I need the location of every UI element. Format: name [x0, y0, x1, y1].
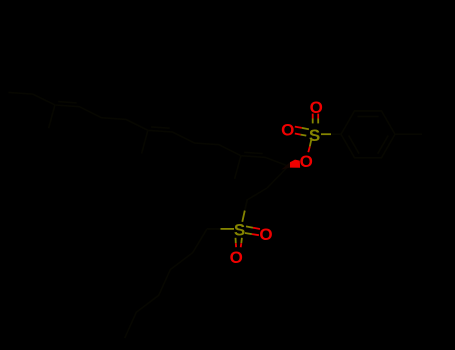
S1 to tosyl ring bond (olive half then dark half)	[321, 133, 331, 135]
wire lower chain descending from sulfone CH2	[125, 229, 207, 338]
tosyl benzene ring	[341, 111, 395, 158]
svg-text:O: O	[230, 248, 243, 267]
svg-text:O: O	[281, 121, 294, 140]
S2=O bottom double bond right line (olive half, red half)	[240, 238, 243, 243]
S2 to chain carbon bond (olive half then dark half)	[242, 211, 245, 222]
wire double bond parallel line Ca=Cb	[244, 152, 263, 153]
S2=O bottom double bond left line (olive half, red half)	[235, 238, 237, 243]
S2 to lower chain CH2 bond (olive half then dark half)	[221, 228, 235, 230]
svg-text:O: O	[300, 152, 313, 171]
S1=O left double bond lower line (red half, olive half)	[295, 134, 301, 135]
wire chain C2-C3	[247, 188, 267, 200]
tosyl ring inner double bond left-bottom	[349, 136, 360, 154]
wedge bond C1 to O (red half near oxygen)	[290, 160, 300, 168]
wire chain C1-C2	[267, 167, 288, 189]
svg-text:O: O	[310, 98, 323, 117]
wire methyl stub on Cb	[235, 156, 241, 179]
wire methyl stub on Cj	[49, 105, 55, 128]
S2=O right double bond upper line (olive half, red half)	[246, 226, 253, 227]
S2=O right double bond lower line (olive half, red half)	[245, 233, 252, 234]
svg-text:S: S	[234, 221, 245, 240]
wire double bond parallel line Ce=Cf	[151, 127, 170, 128]
svg-text:S: S	[309, 126, 320, 145]
S1=O left double bond upper line (red half, olive half)	[295, 127, 302, 128]
S1=O top double bond line 2 (red upper, olive lower)	[317, 114, 319, 119]
svg-text:O: O	[259, 225, 272, 244]
sulfonate S1-O ester bond (olive half)	[310, 139, 312, 146]
wire double bond parallel line Ci=Cj	[58, 102, 77, 103]
S1=O top double bond line 1 (red upper, olive lower)	[312, 114, 314, 119]
tosyl ring inner double bond top	[358, 115, 379, 117]
tosyl ring inner double bond right-bottom	[378, 136, 389, 154]
tosyl methyl bond	[395, 133, 422, 135]
wedge bond C1 to O (dark half near carbon)	[281, 162, 290, 170]
wire chain bond C1-Ca	[8, 92, 288, 166]
sulfonate S1-O ester bond (red half)	[308, 147, 310, 153]
wire methyl stub on Cf	[142, 130, 148, 153]
